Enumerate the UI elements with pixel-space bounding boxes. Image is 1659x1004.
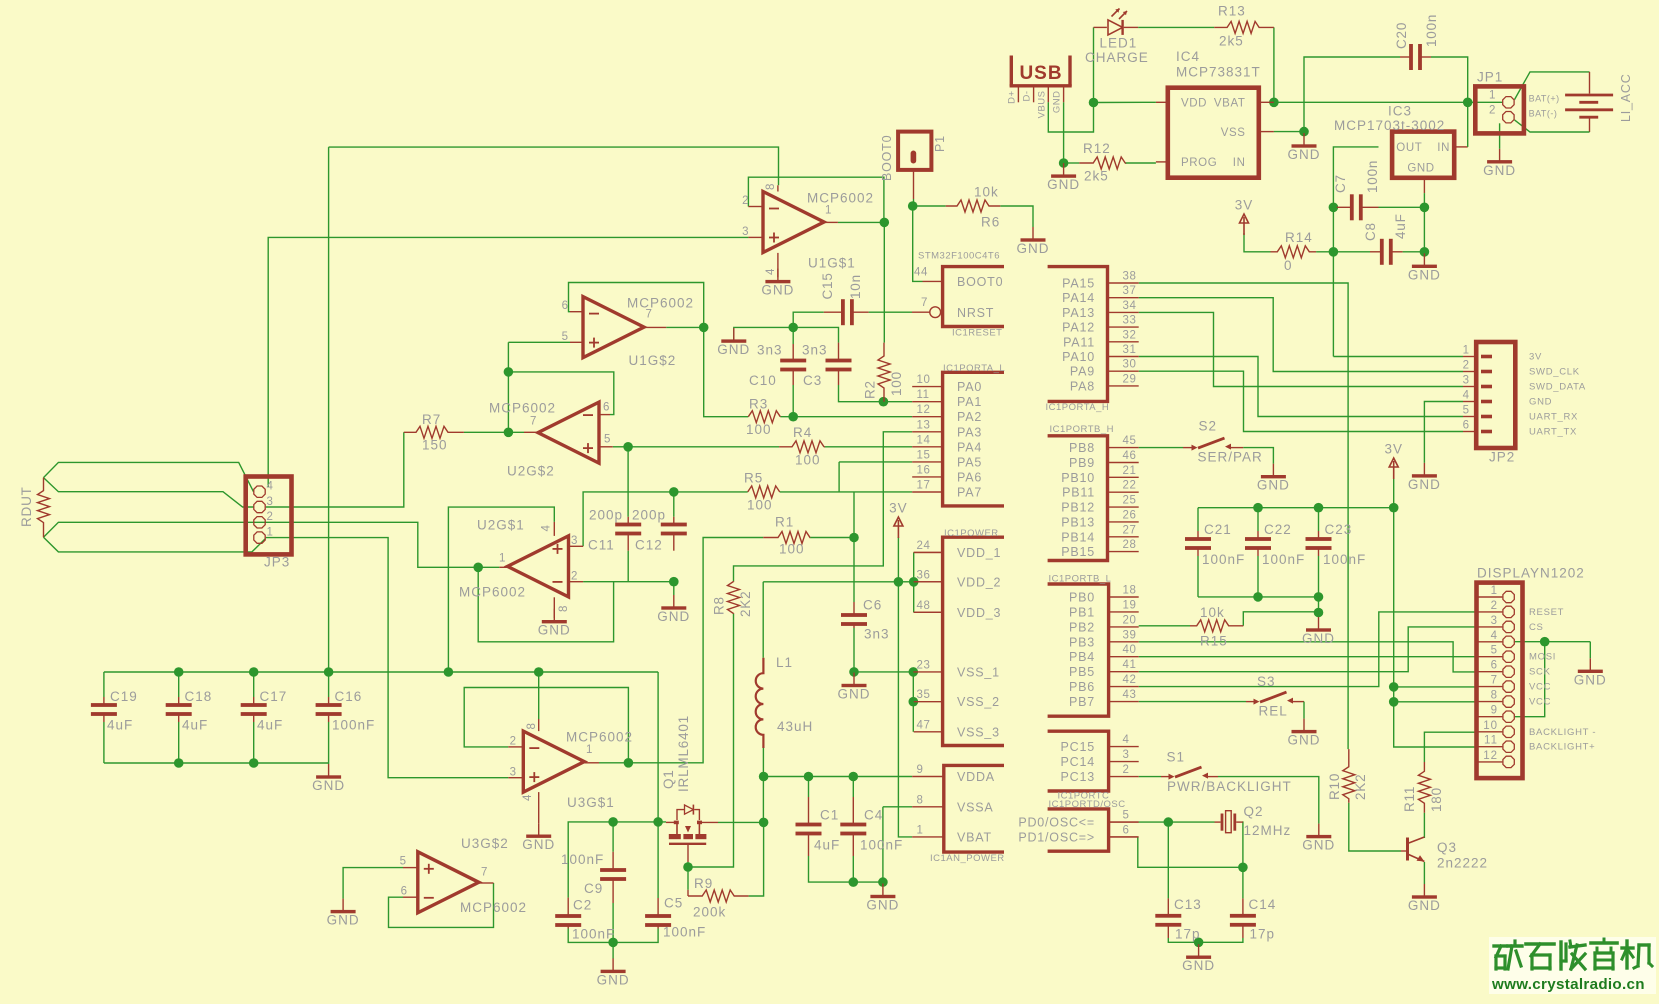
svg-text:R4: R4 bbox=[793, 425, 812, 440]
svg-text:R7: R7 bbox=[422, 412, 441, 427]
junction VSSA gnd bbox=[878, 877, 888, 887]
svg-text:4uF: 4uF bbox=[1393, 213, 1408, 239]
wire PD0 stub bbox=[1109, 821, 1139, 823]
svg-text:100nF: 100nF bbox=[860, 838, 903, 853]
svg-text:12MHz: 12MHz bbox=[1244, 823, 1292, 838]
wire R9 right up bbox=[749, 822, 764, 896]
watermark logo bbox=[1489, 937, 1656, 994]
svg-text:31: 31 bbox=[1123, 344, 1137, 356]
svg-text:PA4: PA4 bbox=[957, 440, 982, 454]
wire Q1 left lead nub bbox=[666, 821, 677, 823]
wire R12 right bbox=[1125, 162, 1156, 164]
svg-text:VSSA: VSSA bbox=[957, 800, 994, 814]
svg-text:1: 1 bbox=[1489, 90, 1496, 102]
wire cap bus top bbox=[1198, 507, 1394, 509]
wire C23 bot lead bbox=[1318, 556, 1320, 597]
wire bottom bus bbox=[104, 762, 329, 764]
junction C1 top bbox=[804, 772, 814, 782]
svg-text:GND: GND bbox=[1288, 147, 1321, 162]
IC1 pin 45 stub bbox=[1108, 447, 1139, 449]
wire C22 bot lead bbox=[1257, 556, 1259, 597]
capacitor C10 3n3 bbox=[792, 344, 794, 360]
resistor R7 150 bbox=[404, 426, 464, 438]
svg-text:GND: GND bbox=[866, 898, 899, 913]
op-amp U1G$1 stubs bbox=[748, 206, 763, 208]
wire U1G$2 output bbox=[666, 326, 704, 328]
wire PB3 to SCK bbox=[1139, 642, 1475, 672]
resistor R1 100 bbox=[763, 532, 810, 544]
resistor R3 100 bbox=[748, 411, 780, 423]
wire U1G$1 out to R2 bbox=[883, 222, 885, 342]
svg-text:3: 3 bbox=[267, 496, 274, 508]
svg-text:12: 12 bbox=[1483, 750, 1498, 762]
connector JP3 pin 2 bbox=[254, 517, 265, 528]
svg-text:MCP1703t-3002: MCP1703t-3002 bbox=[1334, 118, 1445, 133]
svg-text:10k: 10k bbox=[974, 185, 999, 200]
svg-text:GND: GND bbox=[312, 778, 345, 793]
wire bus down to gate bbox=[657, 672, 659, 822]
op-amp U3G$2 stubs bbox=[403, 867, 418, 869]
svg-text:2K2: 2K2 bbox=[738, 591, 753, 617]
svg-text:34: 34 bbox=[1123, 300, 1137, 312]
svg-text:VSS_2: VSS_2 bbox=[957, 695, 1000, 709]
svg-text:RDUT: RDUT bbox=[19, 486, 34, 527]
wire VDD wire bbox=[1094, 101, 1156, 103]
wire C16 bot lead bbox=[328, 722, 330, 764]
junction C8 right bbox=[1420, 247, 1430, 257]
capacitor C14 17p bbox=[1242, 898, 1244, 915]
svg-text:PA9: PA9 bbox=[1070, 365, 1095, 379]
junction disp pin4 bbox=[1540, 637, 1550, 647]
DISPLAY pin 4 stub bbox=[1477, 641, 1503, 643]
wire C17 top lead bbox=[253, 672, 255, 697]
op-amp U3G$1 stubs bbox=[508, 746, 523, 748]
svg-text:C4: C4 bbox=[864, 808, 883, 823]
svg-text:4uF: 4uF bbox=[182, 718, 208, 733]
svg-text:VDD_2: VDD_2 bbox=[957, 575, 1001, 589]
svg-text:4: 4 bbox=[522, 794, 534, 801]
svg-text:BAT(-): BAT(-) bbox=[1529, 109, 1558, 119]
wire P1 down bbox=[913, 199, 915, 206]
svg-text:VDD: VDD bbox=[1181, 98, 1207, 110]
wire C1 top lead bbox=[808, 777, 810, 798]
svg-text:100n: 100n bbox=[1365, 160, 1380, 193]
svg-text:S1: S1 bbox=[1167, 750, 1186, 765]
svg-text:4uF: 4uF bbox=[257, 718, 283, 733]
svg-text:41: 41 bbox=[1123, 659, 1137, 671]
IC1 pin 33 stub bbox=[1108, 326, 1139, 328]
junction R14 right bbox=[1329, 247, 1339, 257]
svg-text:100: 100 bbox=[779, 542, 805, 557]
svg-text:9: 9 bbox=[1491, 705, 1498, 717]
svg-text:PD0/OSC<=: PD0/OSC<= bbox=[1018, 816, 1095, 830]
wire VDD1 stub bbox=[914, 551, 943, 553]
ground S1 bbox=[1318, 824, 1320, 837]
svg-text:GND: GND bbox=[1017, 241, 1050, 256]
junction L1 Q1 bbox=[759, 818, 769, 828]
svg-text:35: 35 bbox=[917, 689, 931, 701]
junction C7 right bbox=[1420, 203, 1430, 213]
junction C4 top bbox=[849, 772, 859, 782]
junction C4 bottom bbox=[849, 877, 859, 887]
wire JP2 pin4 gnd bbox=[1424, 402, 1463, 463]
wire PA14 to SWDCLK bbox=[1139, 298, 1463, 372]
LED LED1 bbox=[1108, 20, 1123, 35]
wire disp gnd bbox=[1589, 642, 1591, 659]
svg-text:25: 25 bbox=[1123, 495, 1137, 507]
wire VBUS bbox=[1048, 102, 1093, 132]
wire R5 node to R1 bbox=[853, 492, 855, 538]
wire VDD line2 bbox=[898, 581, 913, 583]
DISPLAY pin 9 stub bbox=[1477, 716, 1503, 718]
wire U3G$1 pin8 bbox=[538, 672, 540, 719]
svg-text:100nF: 100nF bbox=[663, 925, 706, 940]
svg-text:MCP73831T: MCP73831T bbox=[1176, 65, 1261, 80]
svg-text:8: 8 bbox=[765, 183, 777, 190]
capacitor C11 200p bbox=[627, 517, 629, 525]
svg-text:4: 4 bbox=[765, 268, 777, 275]
svg-text:100nF: 100nF bbox=[1202, 552, 1245, 567]
svg-text:3: 3 bbox=[510, 767, 517, 779]
wire gnd bus W1 bbox=[734, 327, 839, 342]
svg-text:100: 100 bbox=[746, 422, 772, 437]
svg-text:SWD_CLK: SWD_CLK bbox=[1529, 367, 1580, 378]
svg-text:2k5: 2k5 bbox=[1219, 34, 1244, 49]
svg-text:100nF: 100nF bbox=[561, 852, 604, 867]
svg-text:17p: 17p bbox=[1175, 927, 1201, 942]
svg-text:PWR/BACKLIGHT: PWR/BACKLIGHT bbox=[1167, 779, 1292, 794]
svg-text:C18: C18 bbox=[185, 689, 213, 704]
JP2 pin 5 stub bbox=[1463, 416, 1476, 418]
wire Q2 right bbox=[1241, 822, 1244, 867]
DISPLAY pin 2 stub bbox=[1477, 611, 1503, 613]
jumper P1 box bbox=[898, 132, 931, 170]
capacitor C20 100n bbox=[1400, 56, 1411, 58]
IC1 pin 19 stub bbox=[1109, 611, 1139, 613]
svg-text:PC15: PC15 bbox=[1061, 740, 1095, 754]
svg-text:PB2: PB2 bbox=[1069, 620, 1095, 634]
svg-text:11: 11 bbox=[1484, 735, 1498, 747]
svg-text:MCP6002: MCP6002 bbox=[807, 191, 874, 206]
wire C10 bottom bbox=[792, 385, 794, 417]
wire disp pin7 bbox=[1394, 686, 1475, 688]
wire R6 left bbox=[913, 205, 946, 207]
svg-text:2n2222: 2n2222 bbox=[1437, 856, 1488, 871]
svg-text:C15: C15 bbox=[820, 272, 835, 299]
svg-text:IC1AN_POWER: IC1AN_POWER bbox=[930, 853, 1005, 864]
wire U2G$1 feedback loop bbox=[478, 567, 613, 642]
svg-text:R1: R1 bbox=[775, 515, 794, 530]
svg-text:PB9: PB9 bbox=[1069, 456, 1095, 470]
wire VDD2 stub bbox=[914, 581, 943, 583]
wire BOOT0 to pin44 bbox=[913, 206, 923, 281]
svg-text:R2: R2 bbox=[863, 380, 878, 399]
resistor R10 2k2 bbox=[1343, 749, 1355, 803]
capacitor C12 200p bbox=[673, 517, 675, 525]
connector JP3 pin 4 bbox=[254, 486, 265, 497]
wire R6 right bbox=[1000, 206, 1033, 227]
wire S3 right lead bbox=[1293, 701, 1304, 703]
svg-text:5: 5 bbox=[1491, 645, 1498, 657]
IC1 pin 16 stub bbox=[912, 476, 942, 478]
wire PA3 to R8 bbox=[734, 432, 913, 582]
svg-text:IC3: IC3 bbox=[1388, 104, 1412, 119]
wire R8 bottom bbox=[688, 614, 734, 867]
wire C13 down bbox=[1167, 822, 1169, 898]
wire C9 bottom lead bbox=[612, 903, 614, 942]
svg-text:LI_ACC: LI_ACC bbox=[1619, 73, 1633, 122]
junction R3 line bbox=[788, 412, 798, 422]
op-amp U2G$2 stubs bbox=[599, 414, 610, 416]
ground S3 bbox=[1303, 719, 1305, 732]
capacitor C3 3n3 bbox=[838, 343, 840, 361]
svg-text:3V: 3V bbox=[1384, 442, 1403, 457]
svg-text:12: 12 bbox=[917, 404, 931, 416]
wire VSS to gnd bbox=[1274, 131, 1304, 133]
svg-text:GND: GND bbox=[1257, 478, 1290, 493]
resistor R14 0 bbox=[1271, 246, 1317, 258]
wire R10 bottom to Q3 bbox=[1349, 803, 1401, 851]
junction L1 VDDA bbox=[759, 772, 769, 782]
capacitor C23 100nF bbox=[1318, 531, 1320, 539]
junction C10 top bbox=[788, 323, 798, 333]
wire R4 to PA4 bbox=[824, 446, 912, 448]
svg-text:7: 7 bbox=[481, 867, 488, 879]
wire C18 bot lead bbox=[178, 722, 180, 763]
wire R12 left bbox=[1064, 162, 1080, 164]
wire R14 to junction bbox=[1316, 251, 1333, 253]
svg-text:3V: 3V bbox=[1529, 352, 1542, 363]
svg-text:10k: 10k bbox=[1200, 605, 1225, 620]
svg-text:26: 26 bbox=[1123, 509, 1137, 521]
svg-text:C9: C9 bbox=[584, 881, 603, 896]
svg-text:4: 4 bbox=[1123, 734, 1130, 746]
ground C13 C14 bbox=[1198, 944, 1200, 957]
op-amp U2G$1 stubs bbox=[569, 545, 584, 547]
supply 3V JP2 bbox=[1389, 458, 1398, 467]
svg-text:39: 39 bbox=[1123, 629, 1137, 641]
ground U1G1 pin4 bbox=[777, 269, 779, 282]
ground DISPLAY pin4 bbox=[1589, 658, 1591, 671]
wire C18 top lead bbox=[178, 672, 180, 697]
svg-text:RESET: RESET bbox=[1529, 607, 1564, 618]
wire S3 gnd bbox=[1303, 702, 1305, 719]
wire IC3 OUT bbox=[1333, 147, 1378, 357]
svg-text:36: 36 bbox=[917, 569, 931, 581]
wire JP3 pin4 to U1G$1 pin3 (y237) bbox=[268, 237, 748, 487]
ground U3G2 pin5 bbox=[342, 899, 344, 912]
junction VDD vert bbox=[909, 577, 919, 587]
connector JP1 box bbox=[1475, 86, 1524, 133]
IC1 pin 13 stub bbox=[912, 431, 942, 433]
svg-text:5: 5 bbox=[1123, 810, 1130, 822]
IC1 pin 5 stub bbox=[1109, 821, 1139, 823]
svg-text:1: 1 bbox=[1463, 345, 1470, 357]
svg-text:18: 18 bbox=[1123, 585, 1137, 597]
IC1 pin 42 stub bbox=[1109, 686, 1139, 688]
wire U3G$1 feedback bbox=[464, 688, 628, 763]
svg-text:GND: GND bbox=[1302, 838, 1335, 853]
IC1 pin 17 stub bbox=[912, 491, 942, 493]
svg-text:7: 7 bbox=[921, 297, 928, 309]
wire LED anode bbox=[1094, 26, 1107, 28]
svg-text:PC13: PC13 bbox=[1061, 770, 1095, 784]
svg-text:VDD_3: VDD_3 bbox=[957, 606, 1001, 620]
resistor R12 2k5 bbox=[1079, 157, 1125, 169]
svg-text:VDDA: VDDA bbox=[957, 770, 995, 784]
svg-text:PB14: PB14 bbox=[1061, 530, 1095, 544]
svg-text:C14: C14 bbox=[1249, 897, 1277, 912]
svg-text:PB6: PB6 bbox=[1069, 680, 1095, 694]
connector DISPLAYN1202 box bbox=[1477, 583, 1523, 779]
DISPLAY pin 6 pad bbox=[1503, 666, 1514, 677]
IC1 pin 4 stub bbox=[1109, 746, 1139, 748]
svg-text:180: 180 bbox=[1429, 787, 1444, 812]
svg-text:R11: R11 bbox=[1402, 786, 1417, 812]
op-amp U3G$2 bbox=[418, 852, 479, 913]
svg-text:GND: GND bbox=[1182, 958, 1215, 973]
svg-text:1: 1 bbox=[586, 744, 593, 756]
svg-text:32: 32 bbox=[1123, 329, 1137, 341]
svg-text:100nF: 100nF bbox=[332, 718, 375, 733]
svg-text:PB0: PB0 bbox=[1069, 591, 1095, 605]
svg-text:VSS: VSS bbox=[1221, 127, 1246, 139]
svg-text:PC14: PC14 bbox=[1061, 755, 1095, 769]
svg-text:100nF: 100nF bbox=[572, 927, 615, 942]
DISPLAY pin 11 pad bbox=[1503, 741, 1514, 752]
op-amp U1G$2 stubs bbox=[570, 311, 583, 313]
resistor R6 10k bbox=[946, 200, 1001, 212]
connector JP3 box bbox=[246, 477, 292, 555]
wire C11 top bbox=[627, 447, 629, 517]
svg-text:1: 1 bbox=[917, 824, 924, 836]
svg-text:VSS_3: VSS_3 bbox=[957, 725, 1000, 739]
wire disp pin9 link bbox=[1515, 642, 1545, 717]
USB pin VBUS stub bbox=[1047, 87, 1049, 102]
junction Q1 gate R9 bbox=[683, 862, 693, 872]
junction U2G$2 out bbox=[504, 428, 514, 438]
IC1 pin 31 stub bbox=[1108, 356, 1139, 358]
svg-text:3: 3 bbox=[1123, 749, 1130, 761]
svg-text:PB13: PB13 bbox=[1061, 515, 1095, 529]
svg-text:IC1POWER: IC1POWER bbox=[944, 528, 999, 539]
svg-text:R6: R6 bbox=[981, 215, 1000, 230]
supply 3V R14 bbox=[1240, 214, 1249, 223]
wire gate line bbox=[568, 822, 666, 898]
ground C21C22C23 bbox=[1318, 617, 1320, 630]
wire U1G$1 output bbox=[838, 221, 884, 223]
wire C3 bottom to PA1 bbox=[839, 385, 913, 402]
svg-text:GND: GND bbox=[1408, 267, 1441, 282]
connector JP3 pin 1 bbox=[254, 532, 265, 543]
op-amp U1G$2 bbox=[583, 297, 644, 358]
USB pin D+ stub bbox=[1017, 87, 1019, 102]
ground C16 bus bbox=[328, 764, 330, 777]
svg-text:8: 8 bbox=[1491, 690, 1498, 702]
wire JP3 pin1 line bbox=[266, 538, 509, 778]
IC1 gate IC1PORTB_H box bbox=[1048, 436, 1108, 561]
IC1 pin 12 stub bbox=[912, 416, 942, 418]
svg-text:VCC: VCC bbox=[1529, 697, 1551, 708]
svg-text:R10: R10 bbox=[1327, 773, 1342, 800]
junction C22 bot bbox=[1253, 592, 1263, 602]
svg-text:U2G$1: U2G$1 bbox=[477, 518, 525, 533]
svg-text:48: 48 bbox=[917, 600, 931, 612]
svg-text:PA8: PA8 bbox=[1070, 379, 1095, 393]
svg-text:PB11: PB11 bbox=[1062, 486, 1095, 500]
svg-text:IN: IN bbox=[1233, 157, 1246, 169]
svg-text:8: 8 bbox=[917, 794, 924, 806]
svg-text:L1: L1 bbox=[776, 655, 793, 670]
svg-text:REL: REL bbox=[1259, 704, 1288, 719]
svg-text:2K2: 2K2 bbox=[1353, 774, 1368, 800]
svg-text:VBAT: VBAT bbox=[957, 830, 992, 844]
wire PA5 down bbox=[838, 462, 840, 492]
svg-text:45: 45 bbox=[1123, 435, 1137, 447]
svg-text:CHARGE: CHARGE bbox=[1085, 50, 1149, 65]
wire NRST stub bbox=[912, 311, 930, 313]
capacitor C6 3n3 bbox=[853, 602, 855, 615]
svg-text:20: 20 bbox=[1123, 614, 1137, 626]
DISPLAY pin 1 stub bbox=[1477, 596, 1503, 598]
DISPLAY pin 9 pad bbox=[1503, 711, 1514, 722]
wire R13 right down bbox=[1273, 27, 1275, 102]
svg-text:27: 27 bbox=[1123, 524, 1137, 536]
wire R5 left bbox=[674, 491, 748, 493]
svg-text:PA6: PA6 bbox=[957, 470, 982, 484]
JP2 pin 6 stub bbox=[1463, 431, 1476, 433]
svg-text:40: 40 bbox=[1123, 644, 1137, 656]
svg-text:21: 21 bbox=[1123, 465, 1137, 477]
junction VSS gnd bbox=[1299, 127, 1309, 137]
svg-text:GND: GND bbox=[838, 687, 871, 702]
junction VSS1 bbox=[909, 667, 919, 677]
wire IC3 IN up bbox=[1467, 102, 1469, 147]
wire L1 bottom bbox=[762, 748, 764, 822]
svg-text:PA13: PA13 bbox=[1062, 306, 1095, 320]
svg-text:GND: GND bbox=[327, 913, 360, 928]
svg-text:3: 3 bbox=[1463, 375, 1470, 387]
IC1 pin 3 stub bbox=[1109, 761, 1139, 763]
svg-text:DISPLAYN1202: DISPLAYN1202 bbox=[1477, 566, 1585, 581]
svg-text:C2: C2 bbox=[573, 898, 592, 913]
svg-text:15: 15 bbox=[917, 449, 931, 461]
capacitor C21 100nF bbox=[1197, 531, 1199, 539]
capacitor C9 100nF bbox=[612, 852, 614, 870]
wire U2G$1 pin2 line bbox=[583, 581, 674, 583]
svg-text:200p: 200p bbox=[632, 508, 666, 523]
wire R9 left lead bbox=[687, 890, 689, 896]
svg-text:2: 2 bbox=[267, 511, 274, 523]
IC1 pin 15 stub bbox=[912, 461, 942, 463]
svg-text:BACKLIGHT+: BACKLIGHT+ bbox=[1529, 742, 1595, 753]
svg-text:PB4: PB4 bbox=[1069, 650, 1095, 664]
IC3 MCP1703 box bbox=[1392, 132, 1454, 178]
ground VSSA bbox=[882, 884, 884, 897]
capacitor C5 100nF bbox=[657, 898, 659, 916]
wire LED up bbox=[1093, 27, 1095, 102]
resistor R9 200k bbox=[688, 890, 749, 902]
capacitor C17 4uF bbox=[253, 697, 255, 705]
capacitor C16 100nF bbox=[328, 697, 330, 705]
svg-text:R3: R3 bbox=[749, 397, 768, 412]
DISPLAY pin 6 stub bbox=[1477, 671, 1503, 673]
wire S1 left lead bbox=[1161, 776, 1169, 778]
svg-text:PROG: PROG bbox=[1181, 157, 1217, 169]
svg-text:SER/PAR: SER/PAR bbox=[1198, 450, 1263, 465]
wire C21 bot lead bbox=[1197, 556, 1199, 597]
wire R15 right bbox=[1243, 612, 1318, 626]
